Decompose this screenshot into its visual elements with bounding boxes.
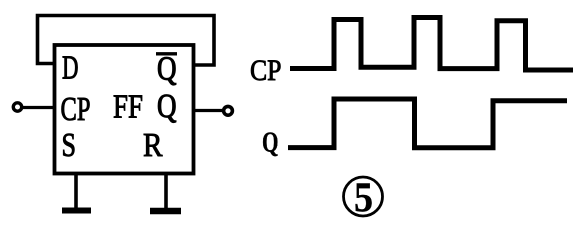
svg-text:S: S <box>62 127 77 164</box>
Q output open terminal <box>224 106 233 115</box>
wire: R input to ground <box>164 174 168 210</box>
wire: CP input lead <box>22 106 55 109</box>
svg-text:5: 5 <box>354 176 373 222</box>
ground (R input) <box>150 208 181 215</box>
D flip-flop U1 box <box>55 45 194 174</box>
CP clock waveform <box>290 18 573 71</box>
CP input open terminal <box>13 103 21 111</box>
svg-text:FF: FF <box>113 89 143 126</box>
svg-text:R: R <box>143 127 163 164</box>
svg-text:D: D <box>62 50 79 87</box>
svg-text:Q: Q <box>157 51 177 88</box>
wire: S input to ground <box>74 172 78 209</box>
svg-text:Q: Q <box>157 88 177 125</box>
wire: Q output lead <box>193 109 222 112</box>
Q output waveform <box>288 99 567 148</box>
svg-text:CP: CP <box>250 54 282 87</box>
svg-text:Q: Q <box>262 128 279 159</box>
pin label Qbar overbar <box>156 52 177 55</box>
svg-text:CP: CP <box>61 91 91 128</box>
figure number circle 5 <box>344 177 383 216</box>
wire: feedback loop from Qbar output to D input <box>38 16 215 66</box>
ground (S input) <box>62 208 91 214</box>
